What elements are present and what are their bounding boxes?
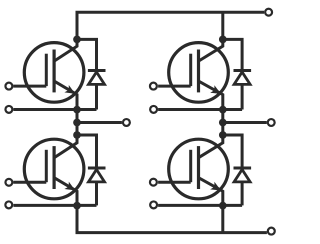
- terminal: right phase output (open circle): [268, 119, 275, 126]
- wire: right phase output lead: [223, 121, 267, 124]
- D3 cathode bar: [88, 167, 106, 170]
- D4 cathode bar: [234, 167, 252, 170]
- Q2 envelope circle: [169, 43, 229, 103]
- terminal: Q2 gate (open circle): [150, 83, 157, 90]
- wire: DC- bottom rail (Q3 emitter node down and across to E terminal): [77, 206, 267, 233]
- wire: left phase output lead: [77, 121, 122, 124]
- junction: Q3 emitter node: [73, 202, 81, 210]
- IGBT Q1 (top left): [13, 39, 84, 109]
- Q3 gate electrode bar: [45, 150, 48, 182]
- wire: Q1 gate lead: [13, 85, 46, 88]
- wire: Q4 auxiliary emitter lead across to D4 anode corner: [158, 204, 242, 207]
- wire: right leg midpoint vertical (Q2 emitter node to Q4 collector node): [221, 110, 224, 136]
- Q4 envelope circle: [169, 139, 229, 199]
- Q4 gate electrode bar: [189, 150, 192, 182]
- wire: Q2 collector riser from top rail: [221, 12, 224, 39]
- D1 triangle: [89, 72, 105, 84]
- junction: Q2 emitter node: [219, 106, 227, 114]
- wire: Q1 auxiliary emitter lead across to D1 anode corner: [13, 108, 96, 111]
- terminal: Q4 auxiliary emitter (open circle): [150, 201, 157, 208]
- wire: Q3 gate lead: [13, 181, 46, 184]
- terminal: Q4 gate (open circle): [150, 179, 157, 186]
- wire: D4 anode stub: [241, 182, 244, 206]
- terminal: emitter E (bottom right, open circle): [268, 228, 275, 235]
- terminal: collector C (top right, open circle): [265, 9, 272, 16]
- Q4 emitter lead: [199, 178, 223, 206]
- terminal: Q3 gate (open circle): [5, 179, 12, 186]
- Q2 emitter arrow: [210, 85, 221, 94]
- Q2 emitter lead: [199, 81, 223, 109]
- Q3 collector lead: [54, 135, 77, 158]
- wire: D3 cathode connector from Q3 collector node: [77, 135, 97, 167]
- D4 triangle: [234, 170, 250, 182]
- wire: Q2 gate lead: [158, 85, 191, 88]
- D3 triangle: [89, 170, 105, 182]
- Q3 emitter lead: [54, 178, 77, 206]
- wire: D2 cathode connector from Q2 collector node: [223, 39, 242, 69]
- junction: Q2 collector node: [219, 36, 227, 44]
- terminal: Q3 auxiliary emitter (open circle): [5, 201, 12, 208]
- Q2 collector lead: [199, 39, 223, 61]
- IGBT Q3 (bottom left): [13, 135, 84, 206]
- junction: Q3 collector node: [73, 131, 81, 139]
- wire: Q2 auxiliary emitter lead across to D2 anode corner: [158, 108, 242, 111]
- Q1 collector lead: [54, 39, 77, 61]
- junction: Q4 emitter node: [219, 202, 227, 210]
- wire: D1 cathode connector from Q1 collector node: [77, 39, 97, 69]
- Q2 body bar: [197, 50, 200, 93]
- Q4 collector lead: [199, 135, 223, 158]
- wire: Q3 auxiliary emitter lead across to D3 anode corner: [13, 204, 96, 207]
- D2 triangle: [234, 72, 250, 84]
- Q2 gate electrode bar: [189, 54, 192, 86]
- junction: left phase tap: [73, 119, 81, 127]
- wire: Q4 gate lead: [158, 181, 191, 184]
- diode D1 (freewheeling, antiparallel Q1): [88, 71, 106, 110]
- IGBT Q4 (bottom right): [158, 135, 228, 206]
- D2 cathode bar: [234, 69, 252, 72]
- Q1 body bar: [52, 50, 55, 93]
- Q1 emitter lead: [54, 81, 77, 109]
- Q1 envelope circle: [24, 43, 84, 103]
- D1 cathode bar: [88, 69, 106, 72]
- diode D3 (freewheeling, antiparallel Q3): [88, 168, 106, 205]
- wire: D2 anode stub: [241, 84, 244, 109]
- Q3 envelope circle: [24, 139, 84, 199]
- wire: left leg midpoint vertical (Q1 emitter node to Q3 collector node): [76, 110, 79, 136]
- terminal: Q2 auxiliary emitter (open circle): [150, 106, 157, 113]
- junction: right phase tap: [219, 119, 227, 127]
- junction: Q1 collector node: [73, 36, 81, 44]
- terminal: left phase output (open circle): [123, 119, 130, 126]
- Q3 emitter arrow: [64, 182, 75, 191]
- Q4 emitter arrow: [210, 182, 221, 191]
- junction: Q1 emitter node: [73, 106, 81, 114]
- terminal: Q1 gate (open circle): [5, 83, 12, 90]
- wire: DC+ top rail (Q1 collector node up and across to C terminal): [77, 12, 264, 39]
- Q1 gate electrode bar: [45, 54, 48, 86]
- IGBT Q2 (top right): [158, 39, 228, 109]
- junction: Q4 collector node: [219, 131, 227, 139]
- wire: D1 anode stub: [95, 84, 98, 109]
- Q1 emitter arrow: [64, 85, 75, 94]
- terminal: Q1 auxiliary emitter (open circle): [5, 106, 12, 113]
- wire: D4 cathode connector from Q4 collector node: [223, 135, 242, 167]
- Q3 body bar: [52, 146, 55, 189]
- wire: Q4 emitter drop to bottom rail: [221, 206, 224, 233]
- wire: D3 anode stub: [95, 182, 98, 206]
- diode D2 (freewheeling, antiparallel Q2): [234, 71, 252, 110]
- diode D4 (freewheeling, antiparallel Q4): [234, 168, 252, 205]
- Q4 body bar: [197, 146, 200, 189]
